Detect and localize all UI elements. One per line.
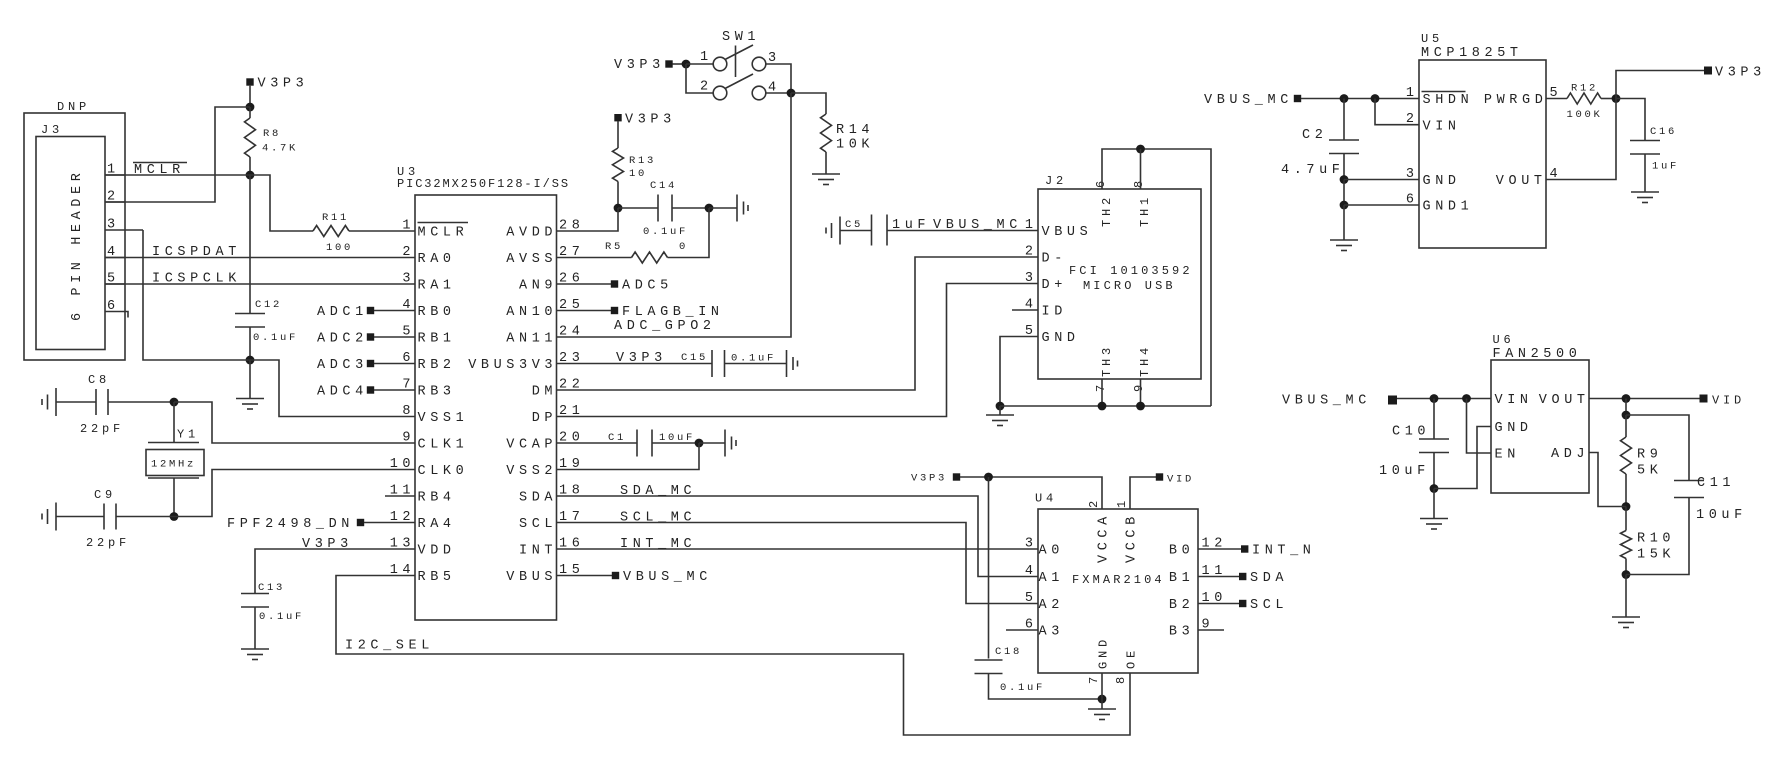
wire C14 to ground junction bbox=[672, 207, 709, 209]
svg-text:D+: D+ bbox=[1042, 278, 1067, 293]
wire gnd bus under J2 bbox=[1000, 405, 1211, 407]
svg-text:10: 10 bbox=[629, 168, 647, 180]
junction TH4 gnd bbox=[1136, 402, 1145, 411]
svg-text:ADC5: ADC5 bbox=[622, 279, 673, 294]
svg-text:U4: U4 bbox=[1035, 492, 1057, 506]
svg-text:A1: A1 bbox=[1039, 571, 1064, 586]
junction node A (CLK1) bbox=[170, 398, 179, 407]
svg-text:C16: C16 bbox=[1650, 126, 1677, 138]
svg-text:R8: R8 bbox=[263, 128, 281, 140]
junction MCLR/R8 bbox=[246, 171, 255, 180]
svg-text:SDA: SDA bbox=[1250, 571, 1288, 586]
junction C1/VSS2 bbox=[695, 439, 704, 448]
junction C10 gnd bbox=[1430, 484, 1439, 493]
svg-text:VBUS_MC: VBUS_MC bbox=[623, 570, 712, 585]
svg-text:VCCA: VCCA bbox=[1097, 512, 1112, 563]
junction C12/GND bbox=[246, 356, 255, 365]
svg-text:DM: DM bbox=[532, 385, 557, 400]
svg-text:FLAGB_IN: FLAGB_IN bbox=[622, 305, 724, 320]
svg-text:RB4: RB4 bbox=[418, 491, 456, 506]
svg-text:FAN2500: FAN2500 bbox=[1493, 347, 1582, 362]
svg-text:SDA: SDA bbox=[519, 491, 557, 506]
svg-text:RB0: RB0 bbox=[418, 305, 456, 320]
net label INT_N bbox=[1198, 548, 1241, 550]
wire R11 to U3 pin1 bbox=[349, 230, 415, 232]
resistor R12 100K bbox=[1546, 98, 1567, 100]
svg-text:C11: C11 bbox=[1697, 476, 1735, 491]
svg-text:TH4: TH4 bbox=[1138, 344, 1152, 377]
wire to U5 GND bbox=[1344, 179, 1419, 181]
junction SW1 pins 1-2 bbox=[682, 60, 691, 69]
svg-text:6 PIN HEADER: 6 PIN HEADER bbox=[70, 169, 85, 321]
J3 pin stubs bbox=[105, 174, 125, 176]
wire V3P3 to U4 VCCA bbox=[960, 477, 1102, 509]
svg-text:0.1uF: 0.1uF bbox=[253, 332, 298, 344]
svg-text:DNP: DNP bbox=[57, 100, 90, 114]
wire INT_MC U3 to U4 A0 bbox=[557, 548, 1039, 550]
svg-text:10uF: 10uF bbox=[659, 432, 695, 444]
junction GND pin3 bbox=[1340, 175, 1349, 184]
svg-text:RA4: RA4 bbox=[418, 517, 456, 532]
wire C1 gnd to U3 VSS2 bbox=[557, 443, 700, 470]
resistor R14 10K bbox=[821, 114, 832, 152]
svg-text:PIC32MX250F128-I/SS: PIC32MX250F128-I/SS bbox=[397, 177, 570, 191]
capacitor C12 0.1uF bbox=[249, 175, 251, 314]
capacitor C13 0.1uF bbox=[241, 593, 269, 595]
wire MCLR J3 pin1 to R11 bbox=[105, 175, 313, 231]
wire VBUS_MC to U6 VIN bbox=[1397, 398, 1491, 400]
svg-text:D-: D- bbox=[1042, 252, 1067, 267]
svg-text:MICRO USB: MICRO USB bbox=[1083, 279, 1176, 293]
ground (below C12) bbox=[249, 360, 251, 399]
svg-text:Y1: Y1 bbox=[177, 428, 199, 442]
wire DP U3 to J2 D+ bbox=[557, 284, 1039, 417]
junction TH1 top bbox=[1136, 145, 1145, 154]
junction PWRGD/VOUT/V3P3 bbox=[1612, 94, 1621, 103]
svg-text:4.7uF: 4.7uF bbox=[1281, 163, 1345, 178]
ground (below J2) bbox=[999, 406, 1001, 415]
svg-text:VIN: VIN bbox=[1423, 119, 1461, 134]
svg-text:1: 1 bbox=[1115, 497, 1129, 508]
svg-text:VSS2: VSS2 bbox=[506, 464, 557, 479]
svg-text:AN11: AN11 bbox=[506, 332, 557, 347]
svg-text:ADC1: ADC1 bbox=[317, 305, 368, 320]
svg-text:C9: C9 bbox=[94, 488, 116, 502]
svg-text:VID: VID bbox=[1712, 394, 1745, 408]
wire U6 GND to gnd junction bbox=[1434, 427, 1491, 489]
svg-text:EN: EN bbox=[1495, 448, 1520, 463]
wire SCL_MC U3 to U4 A2 bbox=[557, 523, 1039, 604]
svg-text:VIN: VIN bbox=[1495, 393, 1533, 408]
svg-text:GND: GND bbox=[1423, 174, 1461, 189]
wire to U5 GND1 bbox=[1344, 204, 1419, 206]
connector J3 6 PIN HEADER bbox=[24, 113, 125, 360]
svg-text:B1: B1 bbox=[1169, 571, 1194, 586]
regulator U6 FAN2500 bbox=[1491, 360, 1589, 493]
wire SDA_MC U3 to U4 A1 bbox=[557, 496, 1039, 577]
wire I2C_SEL U3 RB5 to U4 OE bbox=[336, 576, 1130, 736]
net label ADC5 bbox=[557, 283, 612, 285]
svg-text:V3P3: V3P3 bbox=[625, 113, 676, 128]
resistor R8 4.7K bbox=[249, 107, 251, 118]
svg-text:8: 8 bbox=[1132, 177, 1146, 188]
U3 pin11 stub bbox=[385, 495, 415, 497]
power net V3P3 (top left) bbox=[246, 78, 253, 85]
svg-text:10: 10 bbox=[390, 457, 415, 472]
wire ADJ to divider bbox=[1589, 453, 1626, 507]
svg-text:1: 1 bbox=[402, 219, 415, 234]
U3 pin1 MCLR overline bbox=[418, 222, 469, 224]
svg-text:7: 7 bbox=[1094, 381, 1108, 392]
svg-text:V3P3: V3P3 bbox=[911, 473, 947, 485]
svg-text:7: 7 bbox=[1087, 673, 1101, 684]
svg-text:V3P3: V3P3 bbox=[614, 58, 665, 73]
svg-text:C18: C18 bbox=[995, 646, 1022, 658]
svg-text:8: 8 bbox=[1114, 673, 1128, 684]
svg-text:0.1uF: 0.1uF bbox=[731, 353, 776, 365]
svg-text:TH2: TH2 bbox=[1100, 194, 1114, 227]
svg-text:2: 2 bbox=[1087, 497, 1101, 508]
svg-text:A2: A2 bbox=[1039, 598, 1064, 613]
junction SW1/R14/ADC_GPO2 bbox=[787, 89, 796, 98]
svg-text:0.1uF: 0.1uF bbox=[259, 611, 304, 623]
junction EN bbox=[1462, 394, 1471, 403]
svg-text:VSS1: VSS1 bbox=[418, 411, 469, 426]
wire C8 to crystal node A bbox=[108, 401, 174, 403]
svg-text:ADC4: ADC4 bbox=[317, 385, 368, 400]
svg-text:J3: J3 bbox=[41, 123, 63, 137]
microcontroller U3 PIC32MX250F128-I/SS bbox=[415, 195, 557, 620]
svg-text:U5: U5 bbox=[1421, 32, 1443, 46]
regulator U5 MCP1825T bbox=[1419, 60, 1546, 248]
svg-text:R9: R9 bbox=[1637, 448, 1662, 463]
wire SW1 pin4 bbox=[766, 92, 791, 94]
svg-text:C13: C13 bbox=[258, 582, 285, 594]
svg-text:SCL: SCL bbox=[519, 517, 557, 532]
svg-text:0.1uF: 0.1uF bbox=[1000, 682, 1045, 694]
wire ADC_GPO2 SW1 to U3 AN11 bbox=[557, 93, 792, 337]
svg-text:I2C_SEL: I2C_SEL bbox=[345, 639, 434, 654]
ground (below C10) bbox=[1420, 518, 1448, 520]
svg-text:INT: INT bbox=[519, 544, 557, 559]
junction C14/R5/gnd bbox=[705, 204, 714, 213]
svg-text:AN9: AN9 bbox=[519, 279, 557, 294]
wire TH2/TH1 tie to gnd bbox=[1102, 149, 1211, 406]
wire VOUT up to junction bbox=[1546, 99, 1616, 180]
svg-text:AVSS: AVSS bbox=[506, 252, 557, 267]
J2 ID stub bbox=[1012, 309, 1038, 311]
svg-text:U6: U6 bbox=[1493, 333, 1515, 347]
svg-text:1uF: 1uF bbox=[1652, 161, 1679, 173]
junction R13/C14/AVDD bbox=[614, 204, 623, 213]
svg-text:C14: C14 bbox=[650, 180, 677, 192]
capacitor C8 22pF bbox=[55, 388, 57, 416]
svg-text:5K: 5K bbox=[1637, 464, 1662, 479]
svg-text:B2: B2 bbox=[1169, 598, 1194, 613]
svg-text:B0: B0 bbox=[1169, 544, 1194, 559]
svg-text:INT_N: INT_N bbox=[1252, 544, 1316, 559]
svg-text:GND: GND bbox=[1495, 421, 1533, 436]
svg-text:1uF: 1uF bbox=[892, 218, 930, 233]
svg-text:ADC2: ADC2 bbox=[317, 332, 368, 347]
svg-text:FPF2498_DN: FPF2498_DN bbox=[227, 517, 354, 532]
svg-text:FCI 10103592: FCI 10103592 bbox=[1069, 264, 1193, 278]
svg-text:VID: VID bbox=[1167, 474, 1194, 486]
wire SW1 pin3 down bbox=[766, 64, 791, 93]
junction VOUT bbox=[1622, 394, 1631, 403]
svg-text:8: 8 bbox=[402, 404, 415, 419]
resistor R11 100 bbox=[313, 226, 349, 237]
svg-text:R13: R13 bbox=[629, 155, 656, 167]
svg-text:ID: ID bbox=[1042, 305, 1067, 320]
svg-text:2: 2 bbox=[402, 245, 415, 260]
wire DM U3 to J2 D- bbox=[557, 257, 1039, 390]
svg-text:VOUT: VOUT bbox=[1496, 174, 1547, 189]
svg-text:CLK1: CLK1 bbox=[418, 438, 469, 453]
wire to SW1 pin2 bbox=[686, 64, 713, 93]
svg-text:V3P3: V3P3 bbox=[258, 77, 309, 92]
svg-text:OE: OE bbox=[1125, 647, 1139, 669]
svg-text:PWRGD: PWRGD bbox=[1484, 93, 1548, 108]
wire ICSPCLK J3 pin5 to U3 RA1 bbox=[105, 283, 415, 285]
wire VIN tie to EN bbox=[1467, 399, 1492, 454]
svg-text:VCCB: VCCB bbox=[1125, 512, 1140, 563]
svg-text:VBUS_MC: VBUS_MC bbox=[933, 218, 1022, 233]
svg-text:VBUS_MC: VBUS_MC bbox=[1282, 394, 1371, 409]
net label MCLR bbox=[133, 162, 187, 164]
ground (below C2) bbox=[1330, 239, 1358, 241]
wire node A to U3 CLK1 bbox=[174, 402, 415, 443]
ground (below U4) bbox=[1101, 699, 1103, 709]
svg-text:2: 2 bbox=[700, 80, 713, 95]
svg-text:R5: R5 bbox=[605, 241, 623, 253]
wire ICSPDAT J3 pin4 to U3 RA0 bbox=[105, 257, 415, 259]
junction TH3 gnd bbox=[1098, 402, 1107, 411]
svg-text:1: 1 bbox=[700, 50, 713, 65]
svg-text:100: 100 bbox=[326, 242, 353, 254]
svg-text:ADC_GPO2: ADC_GPO2 bbox=[614, 319, 716, 334]
svg-text:RB2: RB2 bbox=[418, 358, 456, 373]
wire TH3 to gnd bbox=[1101, 379, 1103, 406]
svg-text:0: 0 bbox=[679, 241, 688, 253]
svg-text:C12: C12 bbox=[255, 299, 282, 311]
wire J2 GND down bbox=[1000, 337, 1038, 407]
wire TH4 to gnd bbox=[1140, 379, 1142, 406]
svg-text:FXMAR2104: FXMAR2104 bbox=[1072, 573, 1165, 587]
capacitor C5 1uF bbox=[839, 217, 841, 245]
junction U4 gnd bbox=[1098, 695, 1107, 704]
svg-text:3: 3 bbox=[402, 272, 415, 287]
svg-text:10uF: 10uF bbox=[1379, 464, 1430, 479]
svg-text:2: 2 bbox=[1025, 245, 1038, 260]
svg-text:RB3: RB3 bbox=[418, 385, 456, 400]
svg-text:C8: C8 bbox=[88, 373, 110, 387]
svg-text:SW1: SW1 bbox=[722, 30, 760, 45]
wire R5 to U3 AVSS bbox=[557, 257, 632, 259]
svg-text:SHDN: SHDN bbox=[1423, 93, 1474, 108]
level translator U4 FXMAR2104 bbox=[1038, 509, 1198, 673]
wire GND junction to U3 VSS1 bbox=[250, 360, 415, 417]
junction ADJ/R9/R10 bbox=[1622, 502, 1631, 511]
net label SDA bbox=[1198, 576, 1239, 578]
svg-text:R10: R10 bbox=[1637, 532, 1675, 547]
net label FLAGB_IN bbox=[557, 310, 612, 312]
svg-text:C10: C10 bbox=[1392, 425, 1430, 440]
svg-text:C1: C1 bbox=[608, 432, 626, 444]
ground (right of C14) bbox=[736, 195, 738, 222]
svg-text:RB5: RB5 bbox=[418, 570, 456, 585]
svg-text:VDD: VDD bbox=[418, 544, 456, 559]
wire VDD to C13 bbox=[255, 549, 415, 594]
wire J3 pin2 to V3P3 bbox=[105, 107, 250, 202]
svg-text:VBUS_MC: VBUS_MC bbox=[1204, 93, 1293, 108]
capacitor C1 10uF bbox=[557, 442, 638, 444]
svg-text:MCLR: MCLR bbox=[418, 226, 469, 241]
capacitor C10 10uF bbox=[1433, 399, 1435, 440]
svg-text:ADC3: ADC3 bbox=[317, 358, 368, 373]
wire VOUT to VID flag bbox=[1589, 398, 1700, 400]
connector J2 FCI 10103592 MICRO USB bbox=[1038, 189, 1201, 379]
junction V3P3/R8 bbox=[246, 103, 255, 112]
resistor R10 15K bbox=[1625, 507, 1627, 531]
svg-text:1: 1 bbox=[1025, 218, 1038, 233]
ground (below R14) bbox=[812, 173, 840, 175]
svg-text:R11: R11 bbox=[322, 212, 349, 224]
svg-text:0.1uF: 0.1uF bbox=[643, 226, 688, 238]
svg-text:100K: 100K bbox=[1567, 109, 1603, 121]
svg-text:AVDD: AVDD bbox=[506, 226, 557, 241]
wire C11 to gnd junction bbox=[1626, 498, 1689, 575]
ground (below R10) bbox=[1612, 616, 1640, 618]
svg-text:4: 4 bbox=[1025, 564, 1038, 579]
wire C18 to U4 GND bbox=[989, 674, 1103, 700]
wire junction to R5 bbox=[668, 208, 710, 258]
svg-text:10K: 10K bbox=[836, 138, 874, 153]
svg-text:3: 3 bbox=[1025, 271, 1038, 286]
svg-text:R12: R12 bbox=[1571, 83, 1598, 95]
svg-text:VOUT: VOUT bbox=[1539, 393, 1590, 408]
svg-text:VBUS: VBUS bbox=[1042, 225, 1093, 240]
svg-text:AN10: AN10 bbox=[506, 305, 557, 320]
svg-text:GND: GND bbox=[1097, 636, 1111, 669]
svg-text:RB1: RB1 bbox=[418, 332, 456, 347]
junction C2 bbox=[1340, 94, 1349, 103]
junction node B (CLK0) bbox=[170, 512, 179, 521]
svg-text:VBUS: VBUS bbox=[506, 570, 557, 585]
wire to C11 bbox=[1626, 415, 1689, 481]
svg-text:C2: C2 bbox=[1302, 128, 1327, 143]
svg-text:10uF: 10uF bbox=[1696, 508, 1747, 523]
net label VBUS_MC (U3 pin15) bbox=[557, 575, 613, 577]
wire junction to C16 bbox=[1616, 99, 1645, 141]
svg-text:CLK0: CLK0 bbox=[418, 464, 469, 479]
ground (below C16) bbox=[1631, 191, 1659, 193]
svg-text:22pF: 22pF bbox=[80, 422, 124, 436]
ground (below C13) bbox=[241, 648, 269, 650]
svg-text:TH3: TH3 bbox=[1100, 344, 1114, 377]
svg-text:GND: GND bbox=[1042, 331, 1080, 346]
wire junction to R14 bbox=[791, 93, 826, 114]
resistor R9 5K bbox=[1625, 399, 1627, 416]
svg-text:GND1: GND1 bbox=[1423, 200, 1474, 215]
wire C9 to node B bbox=[116, 516, 174, 518]
wire V3P3 to junction bbox=[249, 86, 251, 107]
U4 B3 stub bbox=[1198, 629, 1224, 631]
junction C10 bbox=[1430, 394, 1439, 403]
svg-text:A0: A0 bbox=[1039, 544, 1064, 559]
junction J2 gnd bbox=[996, 402, 1005, 411]
svg-text:V3P3: V3P3 bbox=[1715, 66, 1766, 81]
capacitor C14 0.1uF bbox=[618, 207, 658, 209]
svg-text:5: 5 bbox=[1025, 591, 1038, 606]
svg-text:6: 6 bbox=[1094, 177, 1108, 188]
capacitor C9 22pF bbox=[55, 503, 57, 531]
wire to U5 VIN bbox=[1375, 99, 1419, 125]
svg-text:15K: 15K bbox=[1637, 548, 1675, 563]
wire U3 CLK0 to node B bbox=[174, 470, 415, 517]
svg-text:VBUS3V3: VBUS3V3 bbox=[468, 358, 557, 373]
svg-text:12MHz: 12MHz bbox=[151, 459, 196, 471]
svg-text:9: 9 bbox=[402, 431, 415, 446]
svg-text:B3: B3 bbox=[1169, 625, 1194, 640]
ground (right of C1) bbox=[724, 430, 726, 457]
svg-text:3: 3 bbox=[1025, 537, 1038, 552]
junction R10/C11 gnd bbox=[1622, 570, 1631, 579]
resistor R13 10 bbox=[617, 121, 619, 148]
capacitor C18 0.1uF bbox=[988, 477, 990, 659]
wire V3P3 to SW1 pin1 bbox=[673, 63, 687, 65]
svg-text:22pF: 22pF bbox=[86, 536, 130, 550]
ground (right of C15) bbox=[786, 350, 788, 377]
U4 A3 stub bbox=[1006, 629, 1038, 631]
net label V3P3 (at R13) bbox=[614, 114, 621, 121]
svg-text:C15: C15 bbox=[681, 352, 708, 364]
junction GND1 pin6 bbox=[1340, 201, 1349, 210]
svg-text:RA0: RA0 bbox=[418, 252, 456, 267]
svg-text:A3: A3 bbox=[1039, 625, 1064, 640]
capacitor C2 4.7uF bbox=[1343, 99, 1345, 141]
wire U4 VCCB to VID flag bbox=[1130, 477, 1156, 509]
svg-text:ADJ: ADJ bbox=[1551, 447, 1589, 462]
svg-text:VCAP: VCAP bbox=[506, 438, 557, 453]
svg-text:J2: J2 bbox=[1045, 174, 1067, 188]
svg-text:RA1: RA1 bbox=[418, 279, 456, 294]
svg-text:TH1: TH1 bbox=[1138, 194, 1152, 227]
svg-text:SCL: SCL bbox=[1250, 598, 1288, 613]
net label SCL bbox=[1198, 603, 1239, 605]
svg-text:9: 9 bbox=[1132, 381, 1146, 392]
wire junction to U3 AVDD bbox=[557, 208, 619, 231]
svg-text:C5: C5 bbox=[845, 219, 863, 231]
wire to V3P3 flag bbox=[1616, 71, 1704, 99]
junction VIN bbox=[1371, 94, 1380, 103]
svg-text:R14: R14 bbox=[836, 123, 874, 138]
svg-text:4.7K: 4.7K bbox=[262, 143, 298, 155]
junction C11 top bbox=[1622, 411, 1631, 420]
wire VBUS_MC to U5 SHDN bbox=[1301, 98, 1419, 100]
svg-text:MCP1825T: MCP1825T bbox=[1421, 46, 1523, 61]
junction C18 bbox=[984, 473, 993, 482]
svg-text:DP: DP bbox=[532, 411, 557, 426]
wire J3 pin3 to GND junction bbox=[143, 230, 250, 360]
